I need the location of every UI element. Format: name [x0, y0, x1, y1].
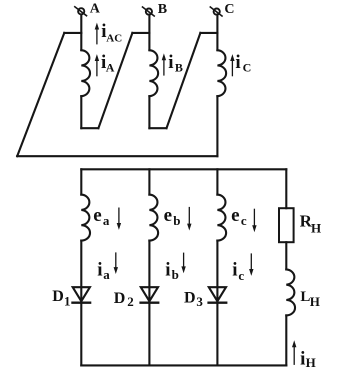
diode D3 [209, 287, 226, 301]
current arrow i_B [163, 59, 165, 75]
svg-text:H: H [311, 220, 321, 235]
wire branch c lower [216, 303, 218, 366]
svg-text:C: C [224, 2, 234, 17]
wire branch b upper [148, 169, 150, 194]
wire C top stub [200, 32, 217, 34]
wire branch b lower [148, 303, 150, 366]
current arrow i_c (down) [250, 253, 252, 270]
emf arrow e_c (down) [253, 209, 255, 227]
wire B vertical bottom [148, 96, 150, 128]
resistor R_H [279, 208, 294, 242]
terminal A circle [78, 8, 84, 14]
svg-text:i: i [168, 52, 173, 73]
wire diagonal A top to delta bottom-left [17, 33, 64, 156]
wire branch c middle [216, 241, 218, 303]
svg-text:i: i [97, 260, 102, 281]
svg-text:C: C [243, 61, 252, 75]
winding e_a (secondary coil) [81, 195, 90, 241]
wire A top stub [64, 32, 81, 34]
svg-text:i: i [232, 260, 237, 281]
winding C (primary coil) [217, 50, 226, 96]
svg-text:i: i [165, 260, 170, 281]
winding e_c (secondary coil) [217, 195, 226, 241]
wire load branch upper [285, 169, 287, 208]
wire branch a upper [80, 169, 82, 194]
terminal A slash [75, 7, 87, 16]
svg-text:2: 2 [127, 294, 134, 309]
svg-text:e: e [164, 205, 172, 226]
wire B bottom stub [149, 127, 166, 129]
svg-text:a: a [103, 267, 110, 282]
svg-text:D: D [184, 290, 196, 307]
svg-text:i: i [235, 52, 240, 73]
winding B (primary coil) [149, 50, 158, 96]
wire A vertical top [80, 14, 82, 50]
wire branch b middle [148, 241, 150, 303]
svg-text:AC: AC [106, 33, 122, 45]
wire A vertical bottom [80, 96, 82, 128]
current arrow i_H (up) [293, 346, 295, 365]
winding A (primary coil) [81, 50, 90, 96]
wire A bottom stub [81, 127, 98, 129]
emf arrow e_a (down) [118, 208, 120, 225]
wire diagonal A-B [98, 33, 132, 128]
wire delta bottom [17, 155, 217, 157]
diode D2 [141, 287, 158, 301]
svg-text:b: b [172, 267, 179, 282]
terminal B circle [146, 9, 152, 15]
wire branch a middle [80, 241, 82, 303]
svg-text:A: A [106, 61, 115, 75]
inductor L_H [286, 269, 295, 315]
wire branch c upper [216, 169, 218, 194]
svg-text:b: b [173, 213, 180, 228]
wire diagonal B-C [167, 33, 201, 128]
emf arrow e_b (down) [188, 207, 190, 225]
current arrow i_AC [95, 23, 297, 365]
wire secondary top bus [81, 168, 286, 170]
svg-text:e: e [93, 205, 101, 226]
current arrow i_C [231, 60, 233, 76]
svg-text:1: 1 [64, 294, 71, 309]
svg-text:c: c [238, 268, 244, 283]
wire B top stub [132, 32, 149, 34]
svg-text:c: c [241, 213, 247, 228]
svg-text:3: 3 [196, 294, 203, 309]
svg-text:D: D [114, 290, 126, 307]
svg-text:B: B [158, 2, 167, 17]
svg-text:e: e [231, 205, 239, 226]
terminal C slash [210, 7, 222, 16]
wire C vertical to delta bottom [216, 96, 218, 156]
svg-text:i: i [300, 348, 305, 369]
current arrow i_A [96, 60, 98, 76]
svg-text:D: D [52, 288, 64, 305]
current arrow i_a (down) [115, 252, 117, 268]
svg-text:A: A [90, 2, 101, 17]
wire branch a lower [80, 303, 82, 366]
wire load branch middle [285, 242, 287, 269]
svg-text:H: H [306, 355, 316, 370]
current arrow i_b (down) [183, 253, 185, 268]
svg-text:a: a [103, 213, 110, 228]
terminal B slash [143, 7, 155, 16]
svg-text:H: H [310, 294, 320, 309]
wire C vertical top [216, 15, 218, 51]
svg-text:B: B [175, 61, 183, 75]
terminal C circle [214, 9, 220, 15]
wire load branch lower [285, 315, 287, 365]
wire secondary bottom bus [81, 364, 286, 366]
winding e_b (secondary coil) [149, 195, 158, 241]
diode D1 [73, 287, 90, 301]
wire B vertical top [148, 15, 150, 51]
